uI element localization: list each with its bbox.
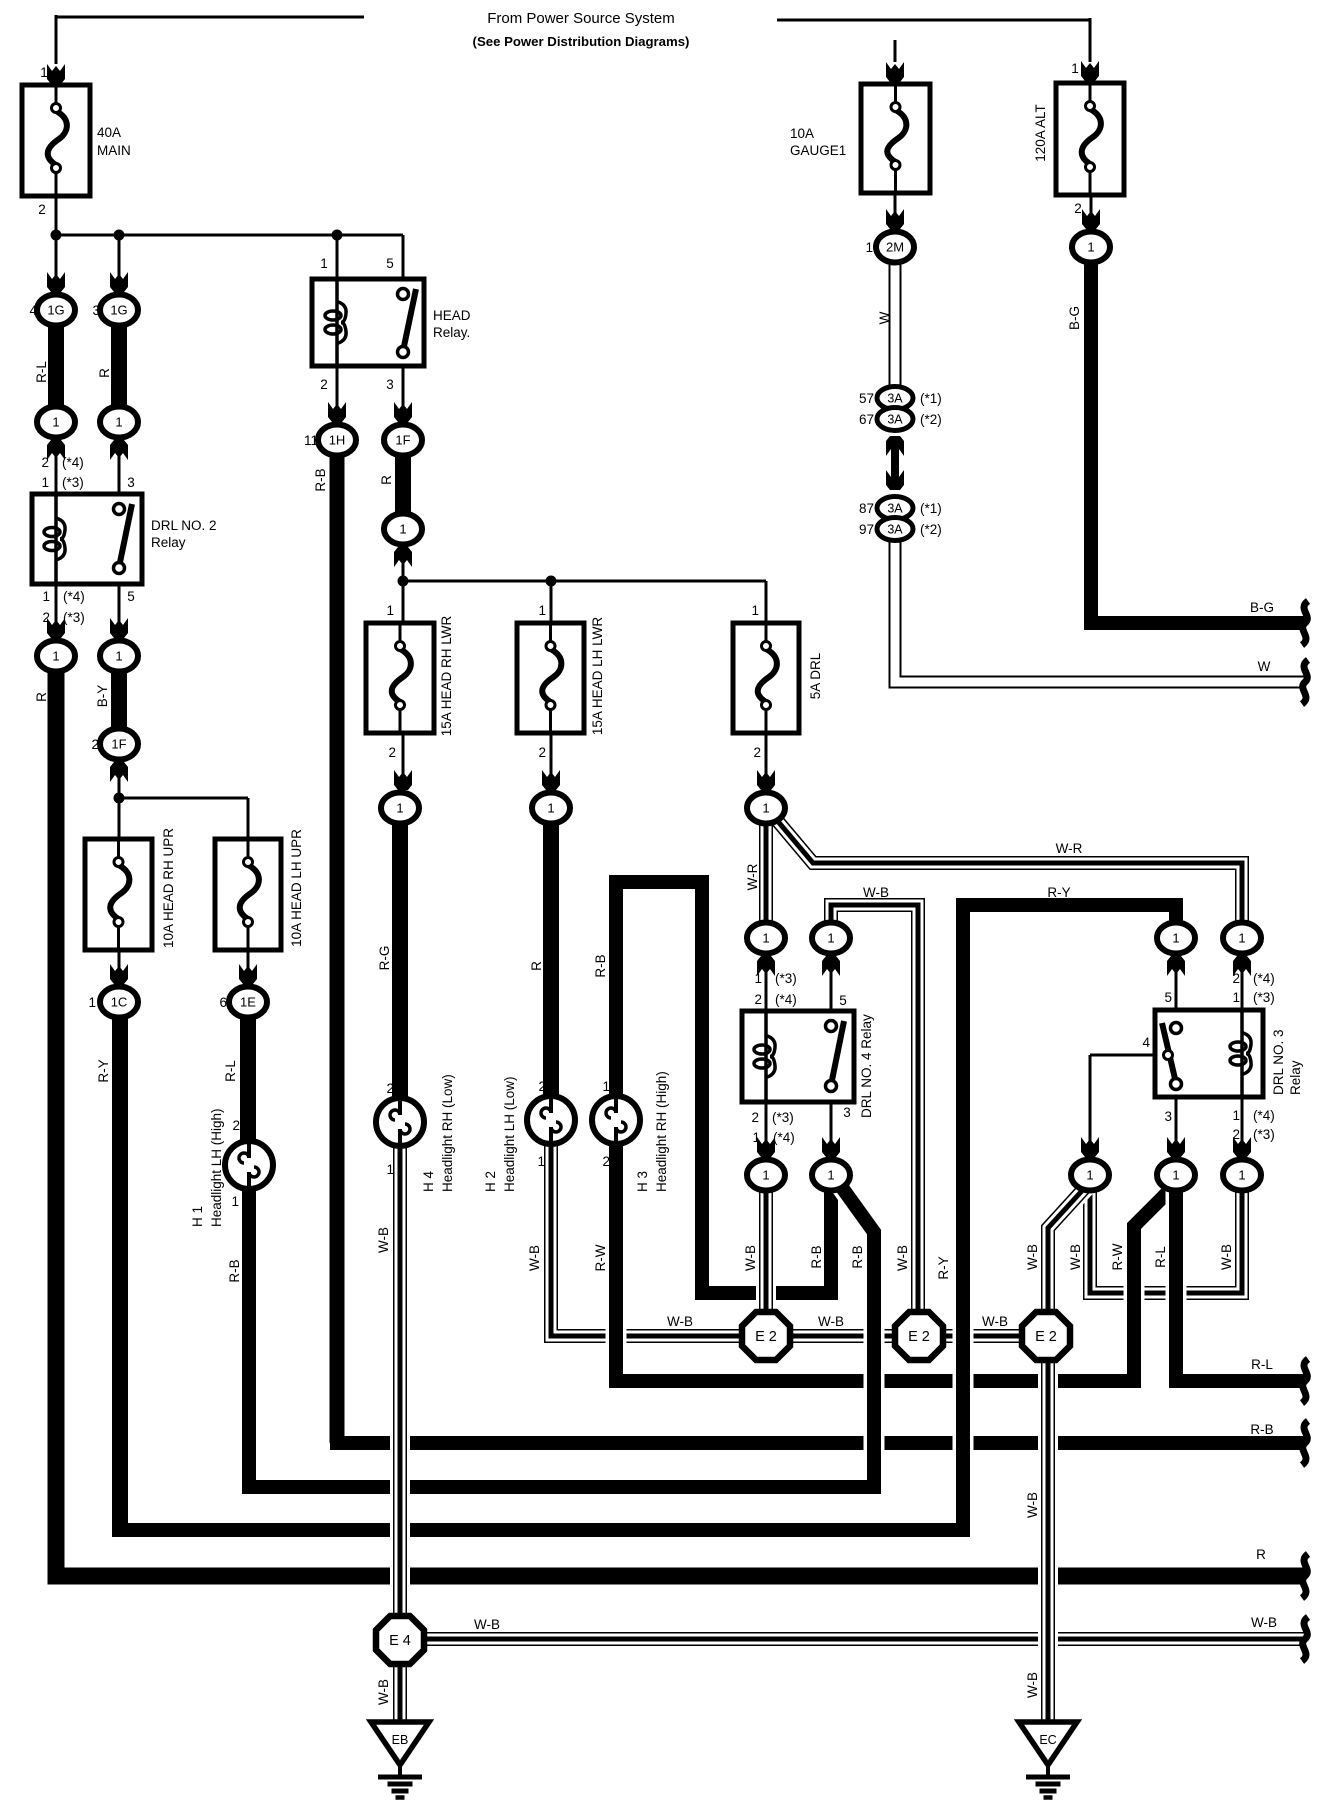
wire W-B headlight H4 to grounds E4 EB: [390, 1142, 410, 1722]
svg-text:3: 3: [843, 1105, 851, 1120]
wire DRL No.4 relay coil feed: [765, 950, 768, 1013]
svg-text:E 2: E 2: [755, 1329, 777, 1345]
wire R-Y 10A HEAD RH UPR to DRL No.3 relay pin5: [114, 905, 1176, 1530]
svg-text:(*2): (*2): [920, 522, 942, 537]
arrows into connectors 1C 1E: [110, 964, 128, 984]
svg-text:1E: 1E: [240, 995, 256, 1010]
svg-text:15A HEAD RH LWR: 15A HEAD RH LWR: [439, 615, 454, 736]
connector 1 below DRL No.2 right: [100, 641, 138, 672]
connector 1 DRL No.3 coil feed: [1223, 923, 1261, 954]
DRL No.2 relay switch: [120, 504, 132, 564]
wire B-Y DRL No.2 relay to connector 1F: [111, 662, 127, 748]
svg-text:2: 2: [1232, 1127, 1240, 1142]
connector 1 DRL No.4 coil out: [747, 1160, 785, 1191]
svg-text:6: 6: [219, 995, 227, 1010]
wire 5A DRL out: [765, 731, 768, 790]
wire R-L 1E to headlight H1: [240, 1010, 256, 1143]
connector 1 DRL No.4 coil feed: [747, 923, 785, 954]
svg-text:EC: EC: [1039, 1733, 1056, 1747]
svg-text:(*4): (*4): [1253, 1108, 1275, 1123]
svg-text:B-G: B-G: [1067, 306, 1082, 330]
svg-text:5: 5: [127, 589, 135, 604]
relay DRL NO. 3: [1155, 1010, 1263, 1097]
ground EB: [371, 1722, 429, 1765]
wire 40A MAIN output to bus: [55, 193, 58, 237]
arrow into 120A ALT: [1081, 61, 1099, 81]
svg-text:1: 1: [1232, 990, 1240, 1005]
svg-text:2: 2: [320, 377, 328, 392]
connector 2M pin1: [876, 232, 914, 263]
svg-text:1G: 1G: [47, 303, 64, 318]
DRL No.4 relay switch: [832, 1021, 844, 1082]
svg-text:3A: 3A: [887, 502, 903, 516]
svg-text:11: 11: [304, 433, 318, 448]
svg-text:1: 1: [231, 1194, 239, 1209]
svg-text:1: 1: [547, 801, 554, 816]
HEAD relay switch: [404, 289, 416, 348]
connector 1 below ALT: [1072, 232, 1110, 263]
svg-text:2: 2: [751, 1110, 759, 1125]
svg-text:R-W: R-W: [1110, 1243, 1125, 1270]
wire R-B connector 1H to right edge: [330, 446, 345, 1443]
svg-text:1: 1: [88, 995, 96, 1010]
svg-text:1: 1: [827, 1168, 834, 1183]
svg-text:1: 1: [1087, 240, 1094, 255]
arrow into connector 1F from below: [110, 762, 128, 782]
connector 1 below LH LWR fuse: [532, 793, 570, 824]
svg-text:1: 1: [602, 1079, 610, 1094]
svg-text:1: 1: [754, 971, 762, 986]
svg-text:67: 67: [859, 412, 874, 427]
arrow into connector 2M: [886, 209, 904, 229]
node E2 ground right: [1022, 1312, 1070, 1360]
svg-text:EB: EB: [392, 1733, 409, 1747]
svg-text:1: 1: [42, 589, 50, 604]
arrow into connector 1 of ALT: [1082, 209, 1100, 229]
svg-text:1: 1: [538, 603, 546, 618]
wire W-R branch to DRL No.3 relay: [770, 812, 1242, 932]
wire W-B ground link DRL No.3: [1090, 1180, 1242, 1293]
wire W from connector 3A to right: [895, 538, 1305, 682]
arrows into connectors below DRL No.3 relay: [1081, 1137, 1099, 1157]
svg-text:(*3): (*3): [63, 610, 85, 625]
svg-text:From Power Source System: From Power Source System: [487, 10, 675, 27]
relay HEAD: [312, 279, 424, 366]
svg-text:(*2): (*2): [920, 412, 942, 427]
svg-text:W-B: W-B: [376, 1679, 391, 1705]
svg-text:1: 1: [52, 649, 59, 664]
svg-text:R-Y: R-Y: [936, 1256, 951, 1279]
svg-text:5: 5: [839, 993, 847, 1008]
svg-text:W-B: W-B: [474, 1617, 500, 1632]
svg-text:1H: 1H: [329, 433, 346, 448]
wire DRL No.4 relay pin2 out: [765, 1100, 768, 1157]
svg-text:1: 1: [752, 1130, 760, 1145]
svg-text:2: 2: [1074, 201, 1082, 216]
wire W-B headlight H2 to ground E2 row: [551, 1142, 1048, 1336]
svg-text:(*3): (*3): [62, 475, 84, 490]
svg-text:2M: 2M: [886, 240, 904, 255]
svg-text:R-L: R-L: [223, 1060, 238, 1082]
svg-text:B-Y: B-Y: [95, 685, 110, 708]
svg-text:1: 1: [1071, 61, 1079, 76]
svg-text:3A: 3A: [887, 392, 903, 406]
node E2 ground left: [742, 1312, 790, 1360]
svg-text:DRL NO. 3: DRL NO. 3: [1271, 1029, 1286, 1095]
wire B-G from 120A ALT: [1091, 256, 1305, 623]
wire R connector 1G to 1: [111, 316, 127, 414]
svg-text:1: 1: [41, 475, 49, 490]
svg-text:1F: 1F: [395, 433, 410, 448]
lamp H1 Headlight LH High: [225, 1141, 273, 1189]
wire 10A HEAD LH UPR out: [247, 948, 250, 984]
connector 1 DRL No.4 pin3 out: [812, 1160, 850, 1191]
svg-text:R-L: R-L: [1153, 1246, 1168, 1268]
svg-text:H 2: H 2: [483, 1171, 498, 1192]
svg-text:H 3: H 3: [635, 1171, 650, 1192]
svg-text:2: 2: [602, 1154, 610, 1169]
fuse 15A HEAD RH LWR: [366, 623, 434, 733]
svg-text:5: 5: [1164, 990, 1172, 1005]
connector 1F pin2: [100, 729, 138, 760]
break B-G right edge: [1302, 601, 1308, 645]
svg-text:(See Power Distribution Diagra: (See Power Distribution Diagrams): [473, 34, 690, 49]
svg-text:2: 2: [754, 992, 762, 1007]
connector 1E pin6: [229, 987, 267, 1018]
connector 1 below 1G right: [100, 407, 138, 438]
svg-text:1: 1: [1172, 1168, 1179, 1183]
wire GAUGE1 to connector 2M: [894, 191, 897, 228]
wire connector 1 to HEAD LWR and DRL fuses: [402, 539, 405, 625]
arrow into 10A GAUGE1: [886, 62, 904, 82]
svg-text:(*4): (*4): [62, 455, 84, 470]
break R-B right edge: [1302, 1421, 1308, 1465]
svg-text:Headlight RH (High): Headlight RH (High): [654, 1071, 669, 1192]
svg-text:Relay.: Relay.: [433, 325, 470, 340]
svg-text:R-G: R-G: [377, 946, 392, 971]
svg-text:W-R: W-R: [745, 863, 760, 890]
wire R DRL No.2 relay to right edge: [56, 660, 1305, 1576]
fuse 15A HEAD LH LWR: [517, 623, 584, 733]
arrows into connectors 1 below DRL No.2: [47, 618, 65, 638]
svg-text:W: W: [877, 311, 892, 324]
svg-text:3A: 3A: [887, 413, 903, 427]
ground EC: [1019, 1722, 1077, 1765]
svg-text:2: 2: [753, 745, 761, 760]
DRL No.3 relay coil: [1240, 1010, 1244, 1097]
wire lower bus to HEAD relay: [56, 234, 403, 237]
node E2 ground middle: [895, 1312, 943, 1360]
svg-text:2: 2: [41, 455, 49, 470]
svg-text:W-B: W-B: [376, 1227, 391, 1253]
fuse 5A DRL: [733, 623, 799, 733]
wire DRL No.4 relay pin3 out: [830, 1100, 833, 1157]
svg-text:1: 1: [1238, 931, 1245, 946]
wire R-B DRL No.4 relay pin3 to headlight H1: [249, 1182, 874, 1487]
svg-text:3: 3: [127, 475, 135, 490]
wire W-B ground E4 to right edge: [400, 1629, 1305, 1649]
svg-text:(*4): (*4): [775, 992, 797, 1007]
svg-text:W-B: W-B: [743, 1245, 758, 1271]
double arrow between 3A connectors: [891, 442, 899, 484]
wire R-L connector 1G to 1: [48, 316, 64, 414]
wire drop to HEAD relay pin1: [336, 235, 339, 281]
svg-text:H 4: H 4: [421, 1171, 436, 1193]
break R-L right edge: [1302, 1359, 1308, 1403]
svg-text:1: 1: [1232, 1108, 1240, 1123]
lamp H2 Headlight LH Low: [527, 1096, 575, 1144]
svg-text:(*4): (*4): [63, 589, 85, 604]
fuse 120A ALT: [1056, 83, 1124, 195]
svg-text:2: 2: [388, 745, 396, 760]
arrow into connector 1 above RH LWR fuse: [394, 547, 412, 567]
svg-text:1: 1: [320, 256, 328, 271]
svg-text:2: 2: [232, 1118, 240, 1133]
svg-text:R-L: R-L: [34, 361, 49, 383]
svg-text:1: 1: [1086, 1168, 1093, 1183]
wire R-G 15A HEAD RH LWR to headlight H4: [392, 814, 408, 1100]
break R right edge: [1302, 1554, 1308, 1598]
svg-text:87: 87: [859, 501, 874, 516]
svg-text:(*4): (*4): [1253, 971, 1275, 986]
svg-text:R-Y: R-Y: [1047, 885, 1070, 900]
svg-text:(*1): (*1): [920, 391, 942, 406]
wire W-B DRL No.3 pin4 to grounds E2 EC: [1048, 1182, 1090, 1722]
svg-text:3: 3: [380, 433, 388, 448]
svg-text:E 2: E 2: [908, 1329, 930, 1345]
svg-text:40A: 40A: [97, 125, 121, 140]
fuse 40A MAIN: [22, 85, 90, 196]
svg-text:DRL NO. 4 Relay: DRL NO. 4 Relay: [859, 1014, 874, 1118]
wire connector 1 to DRL No.2 relay pin2: [55, 436, 58, 496]
svg-text:R-B: R-B: [593, 954, 608, 977]
svg-text:3: 3: [92, 303, 100, 318]
connector 1 DRL No.4 pin5 feed: [812, 923, 850, 954]
svg-text:B-G: B-G: [1250, 600, 1274, 615]
svg-text:R-W: R-W: [593, 1244, 608, 1271]
svg-text:1: 1: [399, 522, 406, 537]
svg-text:2: 2: [538, 745, 546, 760]
wire DRL No.4 relay pin5 feed: [830, 950, 833, 1013]
connector 1F pin3: [384, 425, 422, 456]
arrow into connector 1G pin3: [110, 272, 128, 292]
svg-text:1: 1: [386, 603, 394, 618]
svg-text:W-B: W-B: [1219, 1244, 1234, 1270]
svg-text:5: 5: [386, 256, 394, 271]
svg-text:1: 1: [1238, 1168, 1245, 1183]
arrow into connector 1G pin4: [47, 272, 65, 292]
connector 3A pin87: [877, 497, 913, 520]
break W right edge: [1302, 660, 1308, 704]
arrow into 40A MAIN: [47, 64, 65, 84]
connector 1G pin3: [100, 295, 138, 326]
svg-text:1: 1: [1172, 931, 1179, 946]
wire drop to HEAD relay pin5: [402, 235, 405, 281]
svg-text:R: R: [529, 961, 544, 971]
svg-text:2: 2: [386, 1081, 394, 1096]
svg-text:57: 57: [859, 391, 874, 406]
svg-text:(*3): (*3): [772, 1110, 794, 1125]
svg-text:R-B: R-B: [313, 468, 328, 491]
junction connector 1F to UPR fuses: [114, 793, 125, 804]
fuse 10A HEAD RH UPR: [85, 839, 152, 950]
svg-text:W-B: W-B: [982, 1314, 1008, 1329]
node E4 ground: [376, 1616, 424, 1664]
svg-text:97: 97: [859, 522, 874, 537]
svg-text:5A DRL: 5A DRL: [808, 652, 823, 699]
svg-text:W-B: W-B: [1068, 1244, 1083, 1270]
connector 1 DRL No.3 pin3 out: [1157, 1160, 1195, 1191]
svg-text:2: 2: [38, 202, 46, 217]
svg-text:1: 1: [762, 931, 769, 946]
HEAD relay coil: [335, 279, 339, 366]
svg-text:HEAD: HEAD: [433, 308, 471, 323]
svg-text:R-L: R-L: [1251, 1357, 1273, 1372]
svg-text:1: 1: [827, 931, 834, 946]
wire DRL No.3 relay coil out: [1241, 1095, 1244, 1157]
wire HEAD relay pin2 to connector 1H: [336, 364, 339, 422]
svg-text:4: 4: [29, 303, 37, 318]
svg-text:Headlight LH (High): Headlight LH (High): [209, 1108, 224, 1227]
svg-text:2: 2: [538, 1079, 546, 1094]
lamp H3 Headlight RH High: [592, 1096, 640, 1144]
svg-text:W-B: W-B: [1025, 1244, 1040, 1270]
svg-text:DRL NO. 2: DRL NO. 2: [151, 518, 217, 533]
svg-text:4: 4: [1142, 1035, 1150, 1050]
DRL No.3 relay pin4 contact: [1164, 1051, 1173, 1060]
svg-text:H 1: H 1: [190, 1206, 205, 1227]
fuse 10A HEAD LH UPR: [215, 839, 281, 950]
svg-text:10A HEAD LH UPR: 10A HEAD LH UPR: [289, 829, 304, 947]
svg-text:R: R: [1256, 1547, 1266, 1562]
connector 1 below DRL No.2 left: [37, 641, 75, 672]
wire connector 1F to HEAD UPR fuses: [118, 758, 121, 841]
svg-text:R-Y: R-Y: [96, 1059, 111, 1082]
svg-text:120A ALT: 120A ALT: [1033, 104, 1048, 162]
svg-text:(*3): (*3): [1253, 1127, 1275, 1142]
wire R-B headlight RH high feed loop: [616, 882, 831, 1293]
wire DRL No.2 relay pin1 out: [55, 582, 58, 637]
svg-text:10A: 10A: [790, 126, 814, 141]
svg-text:(*1): (*1): [920, 501, 942, 516]
svg-text:R-B: R-B: [227, 1259, 242, 1282]
svg-text:Relay: Relay: [1288, 1060, 1303, 1095]
svg-text:3: 3: [386, 377, 394, 392]
wire R-W headlight H3 to DRL No.3 relay pin3: [616, 1142, 1172, 1381]
svg-text:2: 2: [91, 737, 99, 752]
arrows into DRL No.4 relay feed connectors: [757, 956, 775, 976]
junction to LWR fuses: [398, 576, 409, 587]
connector 3A pin57: [877, 387, 913, 410]
svg-text:W-B: W-B: [1025, 1672, 1040, 1698]
wire DRL No.3 relay pin3 out: [1175, 1095, 1178, 1157]
DRL No.3 relay switch: [1162, 1023, 1175, 1080]
svg-text:R-B: R-B: [809, 1245, 824, 1268]
svg-text:W-B: W-B: [527, 1245, 542, 1271]
svg-text:W-B: W-B: [863, 885, 889, 900]
connector 1G pin4: [37, 295, 75, 326]
wire DRL No.3 relay coil feed: [1241, 950, 1244, 1012]
svg-text:R-B: R-B: [850, 1245, 865, 1268]
connector 1 below RH LWR fuse: [381, 793, 419, 824]
connector 1C pin1: [100, 987, 138, 1018]
svg-text:3A: 3A: [887, 523, 903, 537]
svg-text:1: 1: [396, 801, 403, 816]
svg-text:W-B: W-B: [1251, 1615, 1277, 1630]
fuse 10A GAUGE1: [861, 84, 930, 193]
svg-text:W: W: [1258, 659, 1271, 674]
wire drop to connector 1G pin4: [55, 235, 58, 292]
wire DRL No.3 relay pin5 feed: [1175, 950, 1178, 1012]
arrows into DRL No.3 relay feed connectors: [1167, 956, 1185, 976]
svg-text:1C: 1C: [111, 995, 128, 1010]
connector 1 below 1G left: [37, 407, 75, 438]
connector 3A pin97: [877, 518, 913, 541]
svg-text:R-B: R-B: [1250, 1422, 1273, 1437]
connector 1H pin11: [318, 425, 356, 456]
svg-text:Headlight RH (Low): Headlight RH (Low): [440, 1074, 455, 1192]
svg-text:MAIN: MAIN: [97, 143, 131, 158]
arrows into connectors 1 under LWR fuses: [394, 770, 412, 790]
svg-text:(*3): (*3): [1253, 990, 1275, 1005]
wire W-R from 5A DRL to DRL No.4 relay: [759, 816, 773, 932]
relay DRL NO. 4: [742, 1011, 854, 1102]
wire 10A HEAD RH UPR out: [118, 948, 121, 984]
svg-text:R: R: [34, 692, 49, 702]
svg-text:15A HEAD LH LWR: 15A HEAD LH LWR: [590, 617, 605, 736]
wire R 15A HEAD LH LWR to headlight H2: [543, 814, 559, 1098]
wire top-left power bus: [56, 16, 364, 19]
svg-text:(*3): (*3): [775, 971, 797, 986]
wire R-L DRL No.3 relay pin3 to right edge: [1176, 1180, 1305, 1381]
svg-text:W-B: W-B: [1025, 1492, 1040, 1518]
relay DRL NO. 2: [32, 494, 142, 584]
svg-text:1: 1: [762, 801, 769, 816]
arrow into connector 1F: [394, 402, 412, 422]
svg-text:1: 1: [52, 415, 59, 430]
svg-text:1F: 1F: [111, 737, 126, 752]
svg-text:2: 2: [42, 610, 50, 625]
svg-text:R: R: [379, 475, 394, 485]
svg-text:E 2: E 2: [1035, 1329, 1057, 1345]
connector 3A pin67: [877, 408, 913, 431]
connector 1 below 5A DRL fuse: [747, 793, 785, 824]
svg-text:1: 1: [40, 65, 48, 80]
connector 1 DRL No.3 coil out: [1223, 1160, 1261, 1191]
svg-text:Headlight LH (Low): Headlight LH (Low): [502, 1076, 517, 1192]
arrows into connectors 1 below 1G: [47, 440, 65, 460]
svg-text:1: 1: [751, 603, 759, 618]
svg-text:1G: 1G: [110, 303, 127, 318]
wire W-B DRL No.4 coil out to ground E2: [756, 1183, 776, 1330]
svg-text:R: R: [97, 368, 112, 378]
svg-text:GAUGE1: GAUGE1: [790, 143, 846, 158]
svg-text:1: 1: [115, 415, 122, 430]
wire top-right power bus: [777, 19, 1090, 22]
wire DRL No.2 relay pin5 out: [118, 582, 121, 637]
wire 15A HEAD LH LWR out: [550, 731, 553, 790]
svg-text:E 4: E 4: [389, 1633, 411, 1649]
wire 15A HEAD RH LWR out: [402, 731, 405, 790]
svg-text:W-B: W-B: [667, 1314, 693, 1329]
wire W-B DRL No.4 pin5 to ground E2: [831, 905, 918, 1330]
wire W from connector 2M to 3A: [889, 258, 902, 390]
arrows into connectors below DRL No.4 relay: [757, 1137, 775, 1157]
svg-text:1: 1: [762, 1168, 769, 1183]
svg-text:2: 2: [1232, 971, 1240, 986]
svg-text:1: 1: [386, 1162, 394, 1177]
svg-text:1: 1: [537, 1154, 545, 1169]
